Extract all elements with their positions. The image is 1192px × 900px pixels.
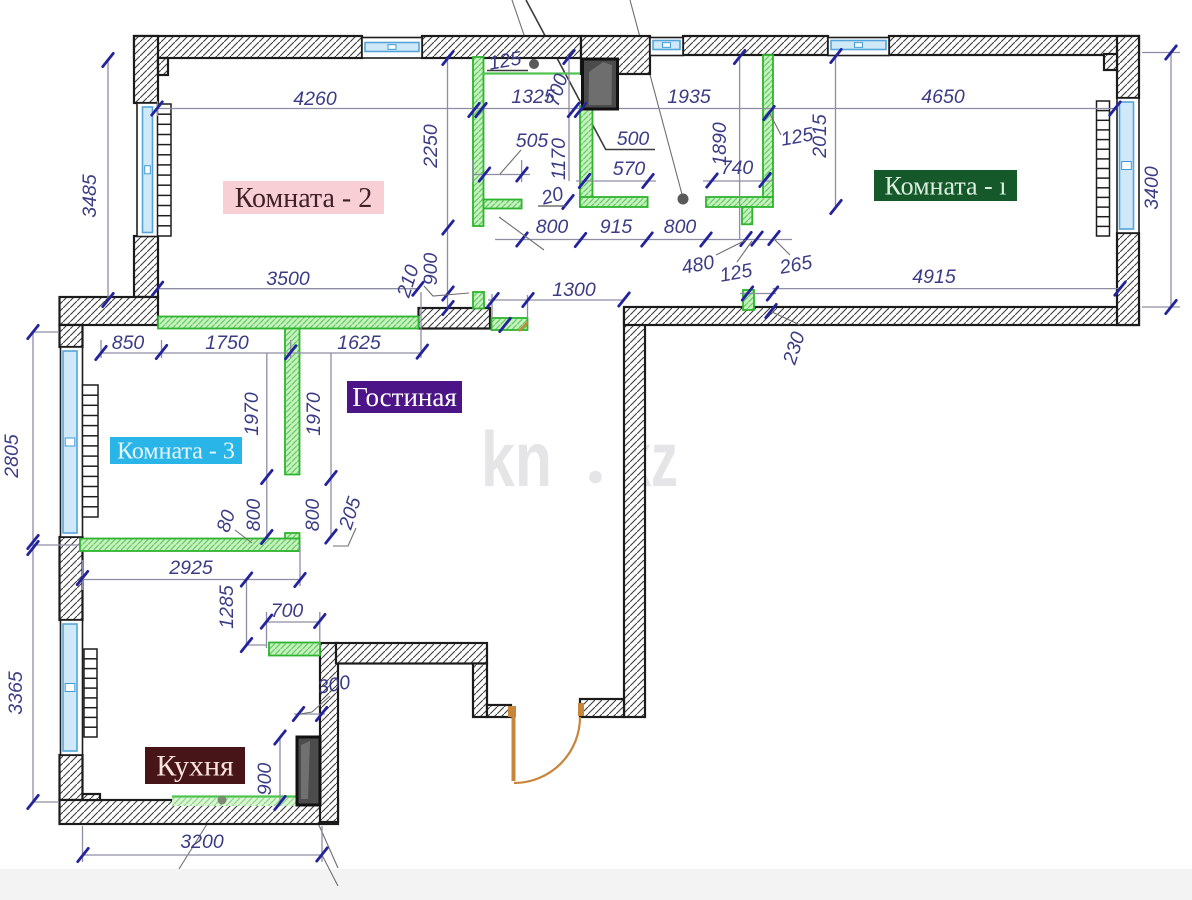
svg-text:800: 800	[664, 216, 697, 238]
svg-text:1285: 1285	[216, 585, 238, 629]
svg-text:500: 500	[617, 128, 650, 150]
svg-text:3400: 3400	[1141, 166, 1163, 210]
svg-text:3365: 3365	[5, 671, 27, 715]
svg-text:800: 800	[302, 499, 324, 532]
svg-text:kn: kn	[481, 415, 552, 503]
svg-text:800: 800	[536, 216, 569, 238]
svg-text:505: 505	[516, 130, 549, 152]
svg-text:1935: 1935	[667, 86, 711, 108]
svg-text:1625: 1625	[337, 332, 381, 354]
svg-text:1300: 1300	[552, 279, 596, 301]
svg-text:1970: 1970	[303, 392, 325, 436]
svg-text:570: 570	[613, 158, 646, 180]
svg-text:3200: 3200	[180, 831, 224, 853]
svg-text:700: 700	[271, 600, 304, 622]
svg-text:4260: 4260	[293, 88, 337, 110]
svg-text:Комната - ı: Комната - ı	[885, 171, 1007, 200]
svg-text:2925: 2925	[168, 557, 213, 579]
svg-text:1170: 1170	[548, 138, 570, 180]
svg-text:Гостиная: Гостиная	[352, 382, 457, 412]
svg-text:Комната - 2: Комната - 2	[235, 183, 372, 214]
svg-text:4915: 4915	[912, 266, 956, 288]
svg-text:800: 800	[243, 499, 265, 532]
svg-text:3500: 3500	[266, 268, 310, 290]
svg-text:900: 900	[254, 763, 276, 796]
svg-text:2805: 2805	[1, 434, 23, 479]
svg-text:3485: 3485	[79, 174, 101, 218]
svg-text:1750: 1750	[205, 332, 249, 354]
svg-text:1970: 1970	[241, 392, 263, 436]
svg-text:2015: 2015	[809, 114, 831, 159]
svg-text:850: 850	[112, 332, 145, 354]
svg-text:Комната - 3: Комната - 3	[117, 439, 235, 465]
svg-text:Кухня: Кухня	[156, 750, 234, 783]
svg-text:2250: 2250	[420, 124, 442, 169]
svg-text:1890: 1890	[709, 122, 731, 166]
svg-text:4650: 4650	[921, 86, 965, 108]
svg-text:915: 915	[600, 216, 633, 238]
